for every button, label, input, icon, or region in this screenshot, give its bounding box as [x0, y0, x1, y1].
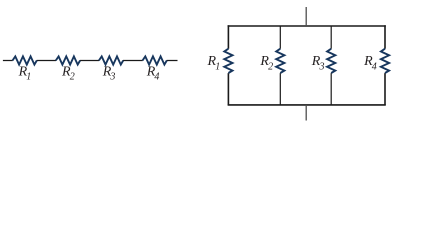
svg-text:2: 2 — [268, 62, 273, 73]
wire: top edge of parallel network — [228, 25, 386, 27]
svg-text:4: 4 — [154, 72, 159, 83]
wire: right branch leads — [384, 25, 386, 105]
resistor R3 (parallel) — [327, 49, 335, 73]
svg-text:2: 2 — [70, 72, 75, 83]
resistor R4 — [143, 56, 167, 64]
wire: branch 2 leads — [279, 26, 281, 105]
svg-text:1: 1 — [26, 72, 31, 83]
resistor R1 (parallel) — [224, 49, 232, 73]
resistor R3 — [99, 56, 123, 64]
wire — [3, 60, 178, 62]
resistor R2 (parallel) — [276, 49, 284, 73]
svg-text:3: 3 — [319, 62, 325, 73]
wire: bottom terminal stub — [305, 105, 307, 121]
svg-text:1: 1 — [215, 62, 220, 73]
svg-text:3: 3 — [109, 72, 115, 83]
wire: left branch leads — [227, 25, 229, 105]
resistor R2 — [56, 56, 80, 64]
svg-text:4: 4 — [372, 62, 377, 73]
wire: top terminal stub — [305, 7, 307, 26]
resistor R4 (parallel) — [381, 49, 389, 73]
resistor R1 — [13, 56, 37, 64]
wire: bottom edge of parallel network — [228, 104, 386, 106]
wire: branch 3 leads — [330, 26, 332, 105]
